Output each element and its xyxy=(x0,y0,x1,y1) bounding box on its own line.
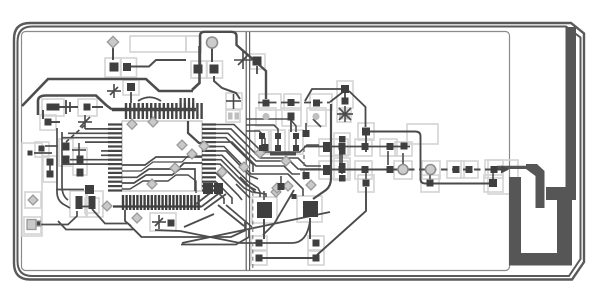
IC U1 left pins xyxy=(108,125,122,191)
wires bottom-left bus xyxy=(58,187,330,245)
antenna connector arm xyxy=(546,187,576,200)
antenna left leg xyxy=(509,177,521,265)
connector J1 bottom comb xyxy=(123,195,199,210)
wires under IC U1 xyxy=(122,121,204,193)
component courtyards silk xyxy=(22,36,518,265)
fiducial crosshairs xyxy=(72,51,353,229)
wire row verticals xyxy=(262,139,493,179)
unfitted gray pad pairs xyxy=(228,113,350,121)
crystal Y1 pad B xyxy=(303,201,318,217)
thick trace top-left loop xyxy=(22,46,200,115)
comb tall pins right xyxy=(181,98,194,103)
capacitor polarity mark xyxy=(66,100,70,114)
pads dark xyxy=(28,57,498,262)
silk inner rectangle xyxy=(22,32,510,271)
wires left of IC xyxy=(34,124,108,225)
antenna feed trace xyxy=(497,166,527,169)
wire via to C pads xyxy=(43,47,240,122)
separator line xyxy=(246,32,249,271)
crystal Y1 pad A xyxy=(257,202,272,218)
via diamonds under IC xyxy=(177,140,197,159)
IC U1 body xyxy=(122,121,202,191)
antenna xyxy=(497,27,576,266)
connector J1 spine xyxy=(113,205,201,207)
wire pad131 to comb xyxy=(130,92,132,103)
antenna feed stub xyxy=(526,164,545,208)
wires IC right bundle xyxy=(216,119,321,204)
wire pad257 down xyxy=(256,66,258,74)
thick trace top box xyxy=(200,32,266,99)
wire big pads down xyxy=(262,187,366,258)
antenna bottom arm xyxy=(509,253,572,266)
wire top row chain xyxy=(258,89,366,199)
via circles xyxy=(207,37,436,175)
wire arc hop xyxy=(138,97,161,101)
dashed silk line xyxy=(252,192,254,268)
IC U1 top comb spine xyxy=(112,108,196,112)
wire RF chain rowB xyxy=(300,169,504,171)
arrow RF feed xyxy=(501,166,509,174)
wire rowA xyxy=(304,146,410,148)
wire loop right-center xyxy=(366,132,493,184)
antenna long arm xyxy=(566,27,577,199)
IC U1 right pins xyxy=(202,125,216,191)
via diamonds xyxy=(27,36,316,229)
IC U1 top pin comb xyxy=(126,103,202,119)
antenna right leg xyxy=(557,193,572,265)
